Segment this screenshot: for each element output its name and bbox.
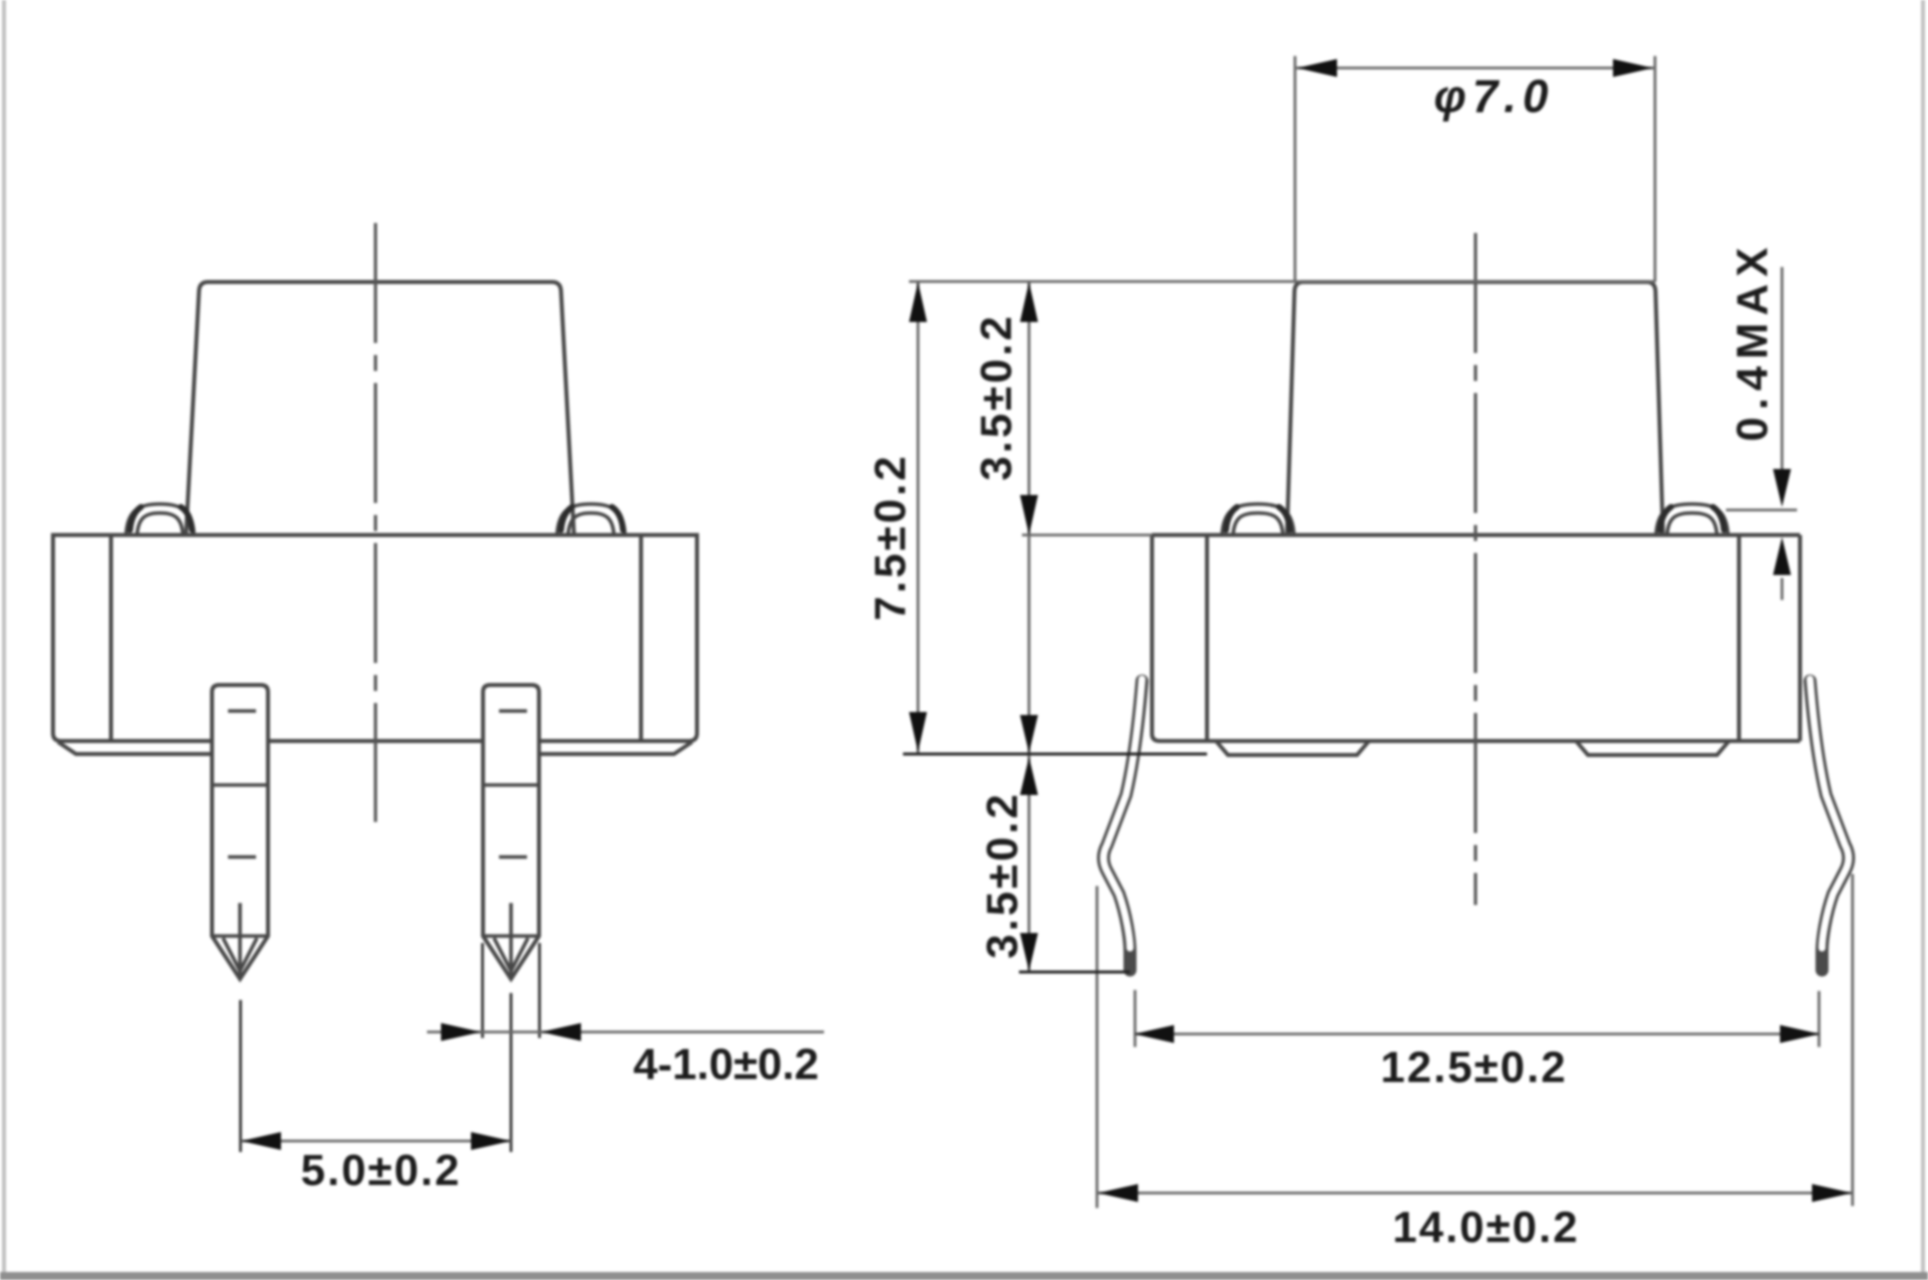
svg-text:3.5±0.2: 3.5±0.2 [978, 791, 1027, 958]
svg-text:5.0±0.2: 5.0±0.2 [301, 1146, 461, 1195]
svg-text:7.5±0.2: 7.5±0.2 [866, 453, 915, 620]
svg-text:3.5±0.2: 3.5±0.2 [972, 313, 1021, 480]
svg-text:0.4MAX: 0.4MAX [1728, 241, 1777, 442]
svg-text:12.5±0.2: 12.5±0.2 [1381, 1043, 1568, 1092]
svg-text:φ7.0: φ7.0 [1434, 70, 1554, 122]
svg-text:14.0±0.2: 14.0±0.2 [1393, 1203, 1580, 1252]
svg-text:4-1.0±0.2: 4-1.0±0.2 [633, 1040, 819, 1089]
